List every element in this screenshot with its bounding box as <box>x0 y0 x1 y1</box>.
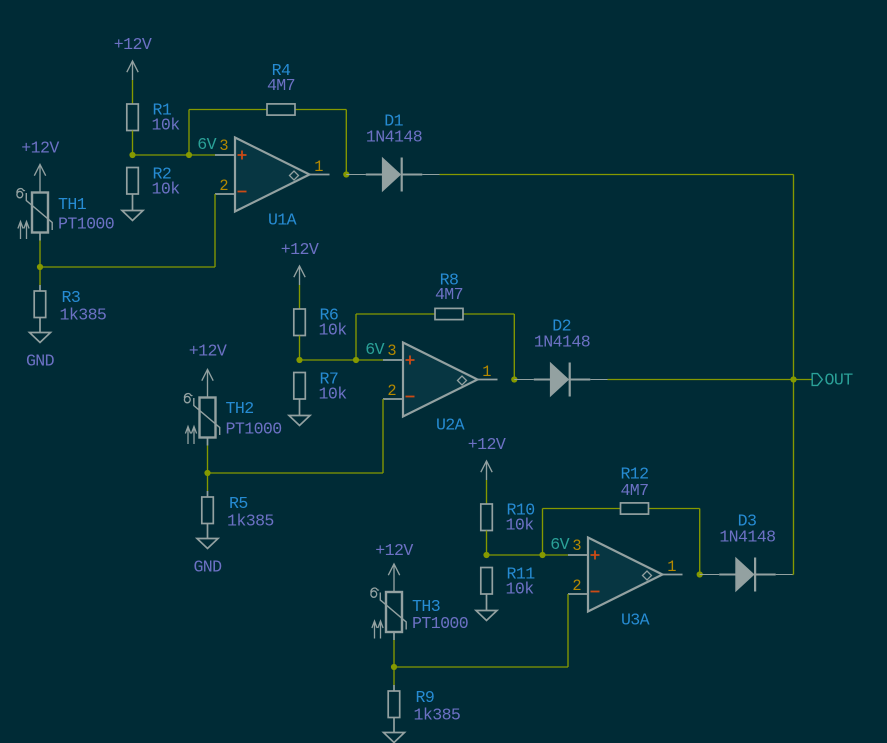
svg-text:1: 1 <box>314 158 323 176</box>
svg-text:10k: 10k <box>319 321 348 340</box>
svg-text:1: 1 <box>667 558 676 576</box>
svg-text:1k385: 1k385 <box>414 706 461 725</box>
svg-text:1N4148: 1N4148 <box>534 333 590 352</box>
svg-text:2: 2 <box>387 382 396 400</box>
svg-text:R5: R5 <box>229 494 248 513</box>
svg-text:1k385: 1k385 <box>227 512 274 531</box>
svg-text:OUT: OUT <box>825 371 854 390</box>
svg-text:+12V: +12V <box>375 541 413 560</box>
svg-text:4M7: 4M7 <box>267 76 295 95</box>
svg-text:+12V: +12V <box>114 35 152 54</box>
svg-text:+12V: +12V <box>21 139 59 158</box>
svg-text:PT1000: PT1000 <box>412 614 468 633</box>
svg-text:+12V: +12V <box>281 240 319 259</box>
svg-text:U1A: U1A <box>268 211 297 230</box>
svg-text:10k: 10k <box>319 385 348 404</box>
svg-text:U2A: U2A <box>436 416 465 435</box>
svg-text:+12V: +12V <box>468 435 506 454</box>
svg-text:1k385: 1k385 <box>60 306 107 325</box>
svg-text:GND: GND <box>26 352 55 371</box>
svg-text:10k: 10k <box>506 516 535 535</box>
svg-text:R9: R9 <box>416 688 435 707</box>
svg-text:3: 3 <box>572 537 581 555</box>
svg-text:1N4148: 1N4148 <box>719 528 775 547</box>
svg-text:+12V: +12V <box>189 342 227 361</box>
svg-text:6V: 6V <box>550 535 569 554</box>
svg-text:10k: 10k <box>152 116 181 135</box>
svg-text:3: 3 <box>387 342 396 360</box>
svg-text:PT1000: PT1000 <box>226 420 282 439</box>
svg-text:R3: R3 <box>62 288 81 307</box>
svg-text:10k: 10k <box>152 180 181 199</box>
svg-text:1: 1 <box>482 363 491 381</box>
svg-text:4M7: 4M7 <box>435 285 463 304</box>
svg-text:6V: 6V <box>197 135 216 154</box>
svg-text:1N4148: 1N4148 <box>366 128 422 147</box>
svg-text:3: 3 <box>219 137 228 155</box>
svg-text:TH2: TH2 <box>226 399 254 418</box>
svg-text:2: 2 <box>572 577 581 595</box>
svg-text:U3A: U3A <box>621 611 650 630</box>
svg-text:GND: GND <box>193 558 222 577</box>
svg-text:2: 2 <box>219 177 228 195</box>
svg-text:10k: 10k <box>506 580 535 599</box>
svg-text:4M7: 4M7 <box>620 481 648 500</box>
svg-text:TH1: TH1 <box>58 195 87 214</box>
svg-text:PT1000: PT1000 <box>58 215 114 234</box>
svg-text:6V: 6V <box>365 340 384 359</box>
